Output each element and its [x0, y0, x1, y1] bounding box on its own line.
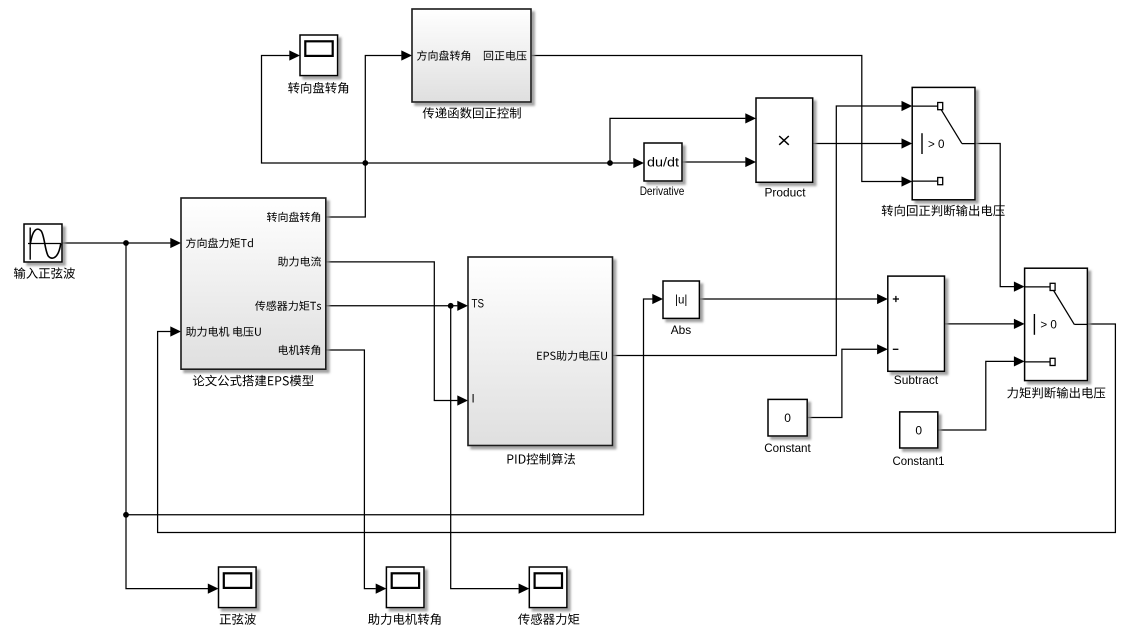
- svg-text:Constant: Constant: [764, 441, 811, 455]
- block Constant (0): [768, 399, 807, 436]
- svg-text:0: 0: [784, 411, 791, 425]
- label Subtract: [894, 373, 939, 387]
- scope block 助力电机转角: [386, 567, 424, 608]
- block switch 力矩判断输出电压 (> 0): [1025, 268, 1088, 380]
- subsystem block 传递函数回正控制: [412, 9, 531, 102]
- label 转向盘转角 (scope): [288, 82, 348, 94]
- scope block 转向盘转角: [300, 35, 338, 76]
- svg-text:du/dt: du/dt: [647, 155, 679, 170]
- port label 助力电流 (EPS output 2): [278, 256, 321, 266]
- svg-text:> 0: > 0: [928, 137, 945, 151]
- wire 输入正弦波 output → EPS 方向盘力矩Td input: [62, 238, 181, 248]
- svg-text:Subtract: Subtract: [894, 373, 939, 387]
- block switch 转向回正判断输出电压 (> 0): [912, 87, 975, 199]
- label 转向回正判断输出电压: [882, 205, 1005, 217]
- subsystem block PID控制算法: [468, 257, 613, 446]
- label 论文公式搭建EPS模型: [193, 375, 314, 387]
- wire EPS 传感器力矩Ts output → PID TS input: [326, 301, 468, 311]
- label 力矩判断输出电压: [1007, 387, 1105, 399]
- wire Constant output → Subtract − input: [807, 344, 888, 417]
- port label 传感器力矩Ts (EPS output 3): [255, 301, 321, 311]
- port label 转向盘转角 (EPS output 1): [267, 212, 320, 222]
- junction node C (steering angle): [362, 160, 368, 166]
- port label 回正电压 (output port 1): [484, 51, 527, 61]
- label Product: [765, 186, 807, 200]
- wire node A → 正弦波 scope input: [126, 243, 219, 594]
- value label 0 (Constant1): [915, 423, 922, 437]
- wire Product output → 转向回正判断输出电压 input 2: [813, 138, 912, 148]
- wire node E → 传感器力矩 scope input: [451, 306, 530, 594]
- wire PID EPS助力电压U output → 转向回正判断输出电压 input 1: [613, 101, 913, 356]
- wire Constant1 output → 力矩判断输出电压 input 3: [938, 356, 1025, 430]
- port label I (PID input 2): [472, 394, 475, 406]
- subsystem block 论文公式搭建EPS模型: [181, 198, 326, 369]
- block Constant1 (0): [900, 412, 938, 448]
- port label 方向盘转角 (input port 1): [417, 50, 470, 60]
- block Product (×): [756, 98, 813, 182]
- svg-text:Derivative: Derivative: [640, 184, 685, 198]
- label Constant: [764, 441, 811, 455]
- label 输入正弦波: [14, 267, 75, 279]
- label Derivative: [640, 184, 685, 198]
- wire EPS 电机转角 output → 助力电机转角 scope input: [326, 350, 387, 594]
- wire EPS 转向盘转角 output → node C: [326, 163, 366, 217]
- port label EPS助力电压U (PID output 1): [537, 351, 607, 361]
- label Abs: [671, 323, 692, 337]
- svg-text:I: I: [472, 394, 475, 406]
- label 正弦波 (scope): [220, 613, 256, 624]
- label 传递函数回正控制: [423, 107, 521, 119]
- svg-text:0: 0: [915, 423, 922, 437]
- junction node E (sensor torque tap): [448, 303, 454, 309]
- junction node B (sine signal tap 2): [123, 512, 129, 518]
- value label du/dt: [647, 155, 679, 170]
- value label |u|: [675, 295, 687, 307]
- source block 输入正弦波 (Sine Wave): [24, 224, 62, 262]
- svg-text:Product: Product: [765, 186, 807, 200]
- junction node D (steering angle tap): [607, 160, 613, 166]
- wire node D → Product input 1: [610, 113, 756, 163]
- svg-text:TS: TS: [472, 299, 485, 311]
- scope block 正弦波: [219, 567, 257, 608]
- wire Derivative output → Product input 2: [682, 157, 756, 167]
- wire node C → 传递函数回正控制 方向盘转角 input: [365, 50, 412, 163]
- port label 电机转角 (EPS output 4): [279, 345, 320, 355]
- junction node A (sine signal tap): [123, 240, 129, 246]
- svg-text:Constant1: Constant1: [893, 454, 945, 468]
- block Abs (|u|): [663, 281, 699, 318]
- svg-text:|u|: |u|: [675, 295, 687, 307]
- wire Abs output → Subtract + input: [699, 294, 887, 304]
- label 传感器力矩 (scope): [518, 613, 579, 624]
- svg-text:Abs: Abs: [671, 323, 692, 337]
- wire EPS 助力电流 output → PID I input: [326, 262, 468, 406]
- label Constant1: [893, 454, 945, 468]
- wire node C → 转向盘转角 scope input: [262, 50, 366, 163]
- wire node C → Derivative input: [365, 158, 644, 168]
- wire 传递函数回正控制 回正电压 output → 转向回正判断输出电压 input 3: [531, 56, 912, 187]
- wire 转向回正判断输出电压 output → 力矩判断输出电压 input 1: [975, 144, 1025, 292]
- block Subtract (+ −): [888, 276, 945, 371]
- label 助力电机转角 (scope): [368, 613, 440, 625]
- block Derivative (du/dt): [644, 143, 682, 181]
- label PID控制算法: [508, 453, 576, 465]
- wire node B → Abs input: [126, 294, 663, 515]
- wire Subtract output → 力矩判断输出电压 input 2: [945, 319, 1025, 329]
- port label 助力电机 电压U (EPS input 2): [186, 327, 261, 337]
- port label TS (PID input 1): [472, 299, 485, 311]
- svg-text:> 0: > 0: [1040, 318, 1057, 332]
- port label 方向盘力矩Td (EPS input 1): [186, 238, 253, 248]
- wire 力矩判断输出电压 output → EPS 助力电机电压U input (feedback): [158, 324, 1116, 533]
- value label 0 (Constant): [784, 411, 791, 425]
- scope block 传感器力矩: [529, 567, 567, 608]
